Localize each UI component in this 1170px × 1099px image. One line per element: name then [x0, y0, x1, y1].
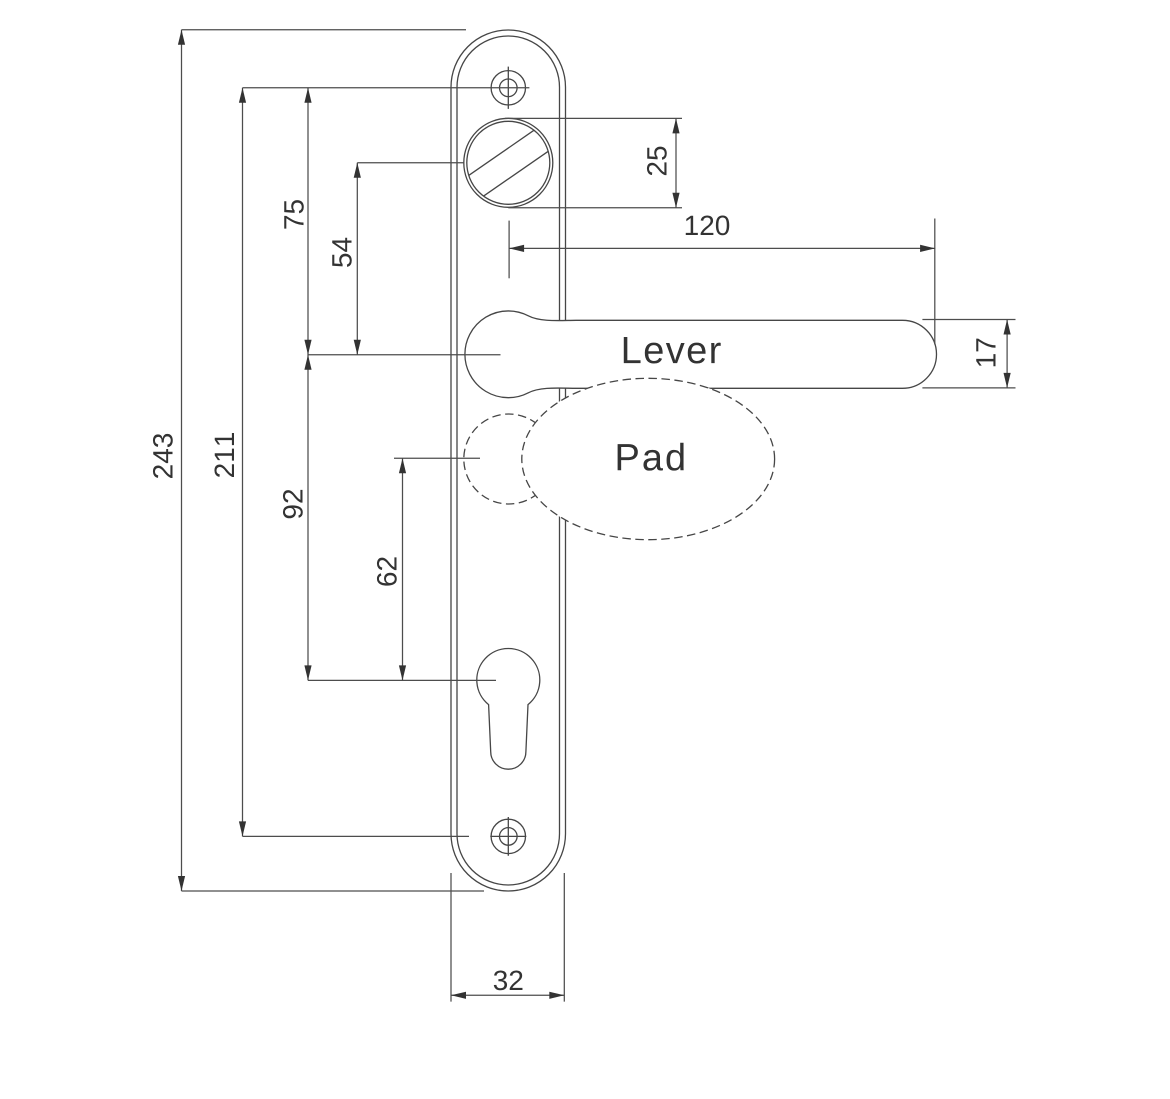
dim 25 bottom extension line — [508, 207, 682, 209]
arrow dim211 bottom — [239, 821, 246, 836]
dim 17 vertical line — [1006, 320, 1008, 388]
bottom screw crosshair horizontal — [490, 835, 526, 837]
bottom screw hole inner circle — [500, 828, 518, 846]
arrow dim54 bottom — [354, 340, 361, 355]
dim 32 right extension line — [563, 873, 565, 1002]
lever handle outline — [465, 311, 937, 398]
pad handle body (dashed ellipse) — [522, 378, 775, 539]
dim 211 bottom extension line (bottom screw) — [243, 835, 470, 837]
dim 120 horizontal line — [509, 247, 935, 249]
label 54 — [332, 238, 352, 267]
arrow dim32 right — [549, 992, 564, 999]
arrow dim54 top — [354, 163, 361, 178]
arrow dim75 bottom — [304, 340, 311, 355]
cylinder thumbturn outer circle — [464, 118, 553, 207]
label 25 — [647, 147, 667, 176]
bottom screw crosshair vertical — [507, 817, 509, 856]
arrow dim243 top — [178, 30, 185, 45]
dim 243 top extension line — [182, 29, 467, 31]
arrow dim92 bottom — [304, 665, 311, 680]
label 120 — [686, 215, 729, 235]
label 75 — [284, 200, 304, 229]
top screw hole inner circle — [500, 79, 518, 97]
label 243 — [153, 434, 173, 478]
arrow dim243 bottom — [178, 876, 185, 891]
arrow dim17 top — [1004, 320, 1011, 335]
euro cylinder keyhole — [477, 649, 540, 770]
arrow dim92 top — [304, 355, 311, 370]
dim 25 top extension line — [505, 117, 682, 119]
label Pad — [618, 443, 684, 471]
arrow dim25 top — [672, 118, 679, 133]
lever centre line — [308, 354, 501, 356]
dim 17 top extension line — [922, 319, 1015, 321]
dim 54 vertical line — [356, 163, 358, 355]
backplate outer outline — [451, 30, 566, 891]
arrow dim211 top — [239, 88, 246, 103]
dim 243 vertical line — [181, 30, 183, 891]
pad centre line — [394, 457, 480, 459]
label 62 — [377, 557, 397, 585]
label 92 — [283, 490, 303, 518]
dim 243 bottom extension line (plate bottom) — [182, 890, 485, 892]
dim 54 top extension line — [357, 162, 464, 164]
dim 75/92 shared vertical line — [307, 88, 309, 681]
dim 32 horizontal line — [451, 994, 564, 996]
thumbturn slot line 2 — [483, 151, 548, 196]
thumbturn slot line 1 — [469, 130, 534, 175]
arrow dim62 top — [399, 458, 406, 473]
top screw hole outer circle — [491, 71, 525, 105]
arrow dim120 right — [920, 245, 935, 252]
dim 120 left tick — [508, 221, 510, 279]
arrow dim75 top — [304, 88, 311, 103]
dim 211 top extension line (through top screw) — [243, 87, 530, 89]
dim 25 vertical line — [675, 118, 677, 207]
label 211 — [214, 433, 234, 477]
dim 32 left extension line — [450, 873, 452, 1002]
bottom screw hole outer circle — [491, 819, 525, 853]
arrow dim32 left — [451, 992, 466, 999]
cylinder thumbturn inner circle — [467, 121, 550, 204]
arrow dim25 bottom — [672, 193, 679, 208]
label 17 — [976, 339, 995, 367]
arrow dim17 bottom — [1004, 373, 1011, 388]
backplate inner outline — [457, 36, 560, 885]
label 32 — [494, 970, 523, 990]
dim 120 right extension line — [934, 219, 936, 345]
arrow dim62 bottom — [399, 665, 406, 680]
arrow dim120 left — [509, 245, 524, 252]
keyhole centre line — [308, 679, 496, 681]
label Lever — [624, 337, 721, 364]
dim 62 vertical line — [402, 458, 404, 680]
dim 17 bottom extension line — [922, 387, 1015, 389]
dim 211 vertical line — [242, 88, 244, 837]
pad handle neck (small dashed circle) — [464, 414, 554, 504]
top screw crosshair vertical — [507, 67, 509, 109]
